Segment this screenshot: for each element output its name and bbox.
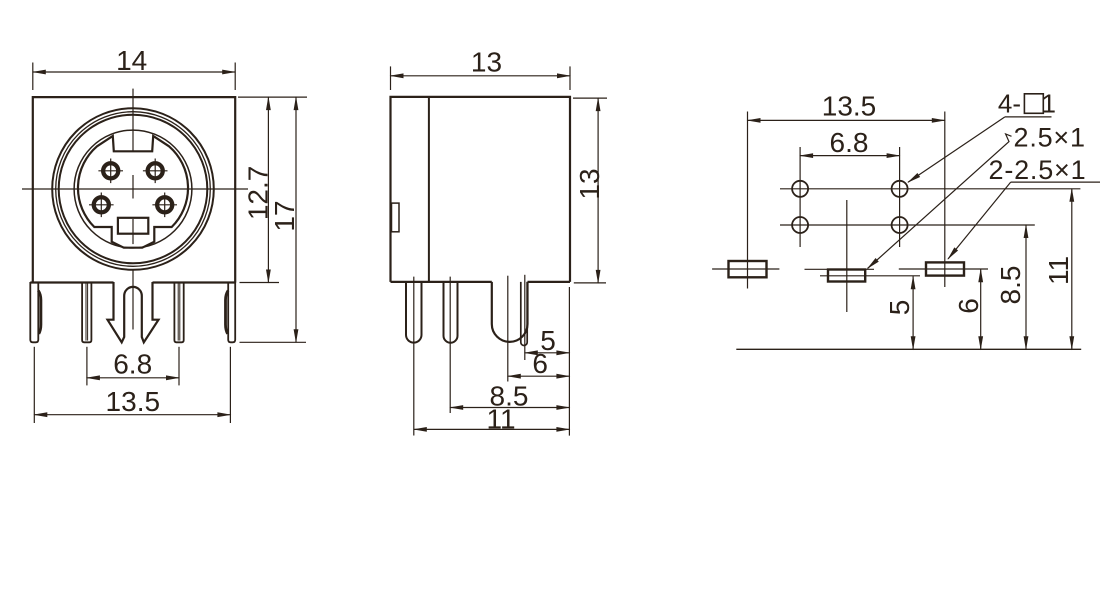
svg-text:13: 13 [471,47,502,78]
side leg 1 [406,282,422,343]
side view body [391,97,571,282]
leader to hole A2 [908,117,1005,182]
dimension 11 side [414,428,570,430]
barrel ring 3 [59,115,208,264]
pin 4 ring [103,163,118,178]
pcb hole B1 [792,217,808,233]
dimension 12.7 [238,96,307,98]
pin 1 crosshair [152,204,177,206]
svg-text:5: 5 [884,300,915,316]
svg-text:4-: 4- [998,89,1021,119]
side shield tab U [492,282,528,342]
svg-text:6.8: 6.8 [113,349,152,380]
pin 3 ring [148,163,163,178]
svg-text:13: 13 [574,168,605,199]
front left inner leg seam [85,283,87,341]
svg-text:13.5: 13.5 [822,91,877,122]
front left inner leg [82,282,91,342]
dimension 13 right [573,97,607,99]
pcb right pad midline [899,268,926,270]
pcb baseline [736,348,1081,350]
dimension 14 [32,63,34,91]
pcb center slot pad [828,270,865,282]
leader to right pad [948,182,1011,259]
pcb left pad midline [712,268,779,270]
pcb row line 1 [780,188,1080,190]
svg-text:17: 17 [269,200,300,231]
front left outer leg [30,282,38,342]
pcb hole column line right [899,147,901,247]
pcb hole A2 [892,181,908,197]
svg-text:11: 11 [1043,256,1074,285]
svg-text:14: 14 [116,45,147,76]
dimension 11 pcb [1071,189,1073,349]
barrel inner ring [74,130,192,248]
dimension 17 [240,341,307,343]
dimension 13 top [390,66,392,90]
svg-text:2.5×1: 2.5×1 [1014,123,1086,153]
dimension 6.8 pcb [800,155,900,157]
svg-text:8.5: 8.5 [995,266,1026,305]
side view bottom edge [391,281,492,283]
dimension 6.8 front [86,347,88,386]
front right inner leg [174,282,183,342]
pin 4 crosshair [98,170,123,172]
key tab rectangle [118,218,148,234]
dimension 5 side [525,352,570,354]
svg-text:1: 1 [1042,89,1056,119]
pcb hole column line left [799,147,801,247]
side shield tab centerline [507,276,509,382]
pcb left slot pad [729,261,767,277]
pin 2 crosshair [89,204,114,206]
side view latch notch [392,203,400,232]
pcb center pad top extension [805,268,875,270]
pcb row line 2 [780,224,1035,226]
front right inner leg seam [177,283,179,341]
dimension 8.5 side [450,407,569,409]
pin 2 ring [94,197,109,212]
front view horizontal centerline [22,188,248,190]
front view body [33,97,235,282]
dimension 13.5 pcb [748,119,945,121]
dimension 5 pcb [912,276,914,349]
pcb center pad midline [820,275,920,277]
front view vertical centerline [132,89,134,152]
svg-text:2-2.5×1: 2-2.5×1 [989,155,1087,185]
side leg 2 [444,282,458,343]
side narrow pin leg [521,282,527,346]
front left leg edge shade [38,291,41,334]
pcb left pad centerline [747,112,749,289]
pin 1 ring [157,197,172,212]
dimension 6 side [508,375,570,377]
svg-text:6.8: 6.8 [830,127,869,158]
side leg 1 centerline [413,277,415,436]
leader to center pad [868,134,1012,269]
barrel outer ring [52,108,214,270]
pcb right slot pad [926,262,964,275]
label 4 underline [1005,116,1052,118]
front right leg edge shade [226,291,229,334]
center anchor prongs [108,282,159,342]
dimension 13.5 front [33,347,35,423]
svg-text:6: 6 [953,298,984,314]
barrel ring 2 [56,112,211,267]
label underline [1011,181,1100,183]
pcb hole A1 [792,181,808,197]
front right outer leg [228,282,235,342]
pcb center pad centerline [846,200,848,312]
pin 3 crosshair [143,170,168,172]
shield insert outline [78,136,188,248]
side right extension [568,287,570,436]
side narrow leg centerline [524,275,526,360]
svg-text:6: 6 [532,348,548,379]
side leg 2 centerline [449,277,451,413]
pcb hole B2 [892,217,908,233]
dimension 8.5 pcb [1025,225,1027,349]
svg-text:13.5: 13.5 [106,386,161,417]
pcb right pad centerline [944,112,946,288]
svg-text:11: 11 [486,404,515,435]
side view flange line [428,97,430,282]
dimension 6 pcb [980,269,982,349]
